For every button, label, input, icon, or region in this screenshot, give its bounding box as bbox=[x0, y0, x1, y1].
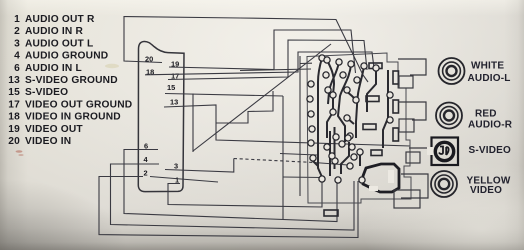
svg-text:AUDIO OUT L: AUDIO OUT L bbox=[25, 38, 93, 49]
svg-text:RED: RED bbox=[475, 109, 497, 120]
PCB pads bbox=[307, 55, 393, 183]
PCB blob white hole bbox=[388, 170, 394, 183]
svg-text:AUDIO OUT R: AUDIO OUT R bbox=[25, 14, 95, 25]
diagonal wire bbox=[193, 44, 331, 151]
wire pin19 bbox=[169, 30, 356, 73]
svg-text:20: 20 bbox=[8, 136, 20, 147]
wire pin13 bbox=[164, 105, 410, 146]
bracket wires yellow bbox=[401, 174, 428, 198]
svg-text:AUDIO-L: AUDIO-L bbox=[468, 73, 511, 84]
svg-text:AUDIO GROUND: AUDIO GROUND bbox=[25, 51, 108, 62]
svg-text:VIDEO IN GROUND: VIDEO IN GROUND bbox=[25, 112, 121, 123]
svg-text:S-VIDEO GROUND: S-VIDEO GROUND bbox=[25, 75, 118, 86]
bracket wires s-video bbox=[406, 152, 420, 163]
wire stub mid bbox=[280, 154, 317, 156]
svg-text:13: 13 bbox=[8, 75, 20, 86]
wire vertical along pcb left bbox=[299, 56, 301, 196]
wire vertical mid bbox=[192, 94, 194, 153]
svg-text:15: 15 bbox=[8, 87, 20, 98]
svg-text:4: 4 bbox=[14, 51, 20, 62]
svg-text:WHITE: WHITE bbox=[471, 61, 504, 72]
wire stub into pcb bbox=[240, 69, 311, 71]
svg-text:2: 2 bbox=[14, 26, 20, 37]
svg-text:3: 3 bbox=[14, 38, 20, 49]
svg-text:AUDIO IN R: AUDIO IN R bbox=[25, 26, 83, 37]
wire stub into pcb 2 bbox=[300, 62, 312, 64]
red smudge lower bbox=[18, 154, 23, 156]
SCART connector outline bbox=[138, 41, 184, 191]
wire pin2 bbox=[99, 177, 358, 238]
wire zigzag bbox=[216, 91, 273, 123]
wire pin15 branch down bbox=[282, 96, 284, 219]
RCA jack white bbox=[439, 58, 465, 84]
wire pin17 bbox=[168, 40, 367, 80]
dashed wire bbox=[234, 159, 314, 163]
red smudge bbox=[16, 150, 23, 152]
wire pin4 bbox=[111, 164, 355, 230]
PCB board outline bbox=[307, 53, 411, 203]
svg-text:1: 1 bbox=[14, 14, 20, 25]
PCB smd rects bbox=[324, 63, 399, 216]
svg-text:19: 19 bbox=[8, 124, 20, 135]
svg-text:S-VIDEO: S-VIDEO bbox=[25, 87, 68, 98]
PCB blob white hole 2 bbox=[369, 186, 378, 191]
bracket wires white bbox=[394, 59, 432, 208]
wire pin6 bbox=[124, 150, 337, 222]
svg-text:13: 13 bbox=[170, 98, 178, 107]
svg-text:6: 6 bbox=[14, 63, 20, 74]
wire pin3 + dash bbox=[165, 159, 234, 173]
PCB traces thick bbox=[312, 58, 388, 177]
svg-text:2: 2 bbox=[144, 169, 148, 178]
svg-text:S-VIDEO: S-VIDEO bbox=[469, 145, 512, 156]
pin labels bbox=[144, 55, 180, 185]
svg-text:AUDIO IN L: AUDIO IN L bbox=[25, 63, 82, 74]
svg-text:VIDEO IN: VIDEO IN bbox=[25, 136, 71, 147]
RCA jack red bbox=[436, 103, 462, 129]
RCA jack yellow bbox=[431, 171, 457, 197]
wire pin18 bbox=[145, 52, 374, 75]
wire pin2 stub bbox=[150, 177, 218, 183]
svg-text:15: 15 bbox=[167, 83, 175, 92]
svg-text:17: 17 bbox=[8, 99, 20, 110]
s-video connector icon bbox=[427, 138, 458, 166]
svg-text:VIDEO: VIDEO bbox=[470, 185, 502, 196]
svg-text:VIDEO OUT GROUND: VIDEO OUT GROUND bbox=[25, 99, 132, 110]
PCB thick blob bottom right bbox=[363, 164, 399, 192]
svg-text:3: 3 bbox=[174, 162, 178, 171]
svg-text:AUDIO-R: AUDIO-R bbox=[468, 119, 513, 130]
connector labels bbox=[467, 61, 513, 197]
wire dash tail bbox=[314, 163, 348, 166]
svg-text:4: 4 bbox=[144, 155, 149, 164]
wire pin20 bbox=[124, 17, 368, 83]
wire pin1 bbox=[168, 180, 322, 207]
wire into pad bbox=[283, 176, 322, 179]
pin list text bbox=[8, 14, 132, 147]
svg-text:VIDEO OUT: VIDEO OUT bbox=[25, 124, 83, 135]
bracket wires red bbox=[398, 102, 426, 120]
yellow smudge bbox=[105, 64, 119, 68]
wire pin15 bbox=[165, 94, 283, 97]
svg-text:18: 18 bbox=[8, 112, 20, 123]
